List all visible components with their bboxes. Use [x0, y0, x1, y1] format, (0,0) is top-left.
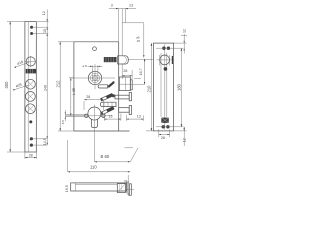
svg-text:19,5: 19,5	[65, 185, 69, 192]
svg-text:15: 15	[124, 180, 128, 184]
svg-text:28: 28	[29, 154, 33, 158]
dimension 300 vertical	[4, 22, 25, 152]
cylinder hole (euro profile)	[65, 105, 112, 134]
latch bolt shaft (hatched)	[104, 57, 117, 62]
lever piece 1 box	[119, 77, 130, 91]
bottom screw pair	[156, 125, 183, 128]
dimension 8,5 cylinder slot	[61, 110, 66, 124]
leader from bottom screw 1	[31, 138, 47, 140]
lever piece 3 edge block	[129, 106, 131, 115]
dimension 8 square	[83, 64, 103, 74]
small hole top of case	[93, 47, 97, 51]
dimension 180	[177, 48, 183, 127]
svg-text:12: 12	[182, 29, 186, 33]
middle view: lock case outline	[74, 42, 130, 131]
dimension 110	[68, 140, 131, 173]
dimension 15 strip end	[124, 175, 129, 196]
svg-text:240: 240	[43, 85, 47, 91]
right chain dimension line	[37, 10, 49, 146]
dimension L 85	[69, 78, 76, 116]
dimension 28 bottom of right view	[159, 129, 170, 140]
svg-text:13: 13	[137, 114, 141, 118]
svg-text:300: 300	[4, 81, 9, 89]
lever piece 3 angled	[101, 107, 114, 115]
dimension 28 bottom of faceplate	[25, 152, 37, 159]
bottom strip view outline	[71, 183, 127, 191]
dimension 16,7	[139, 59, 145, 85]
lever piece 1 centerline	[130, 83, 144, 85]
svg-text:210: 210	[147, 85, 152, 93]
svg-text:14,5: 14,5	[43, 138, 47, 145]
svg-text:L 85: L 85	[72, 88, 76, 95]
small hatched hole below	[164, 67, 168, 71]
svg-text:28: 28	[161, 136, 165, 140]
svg-text:13: 13	[129, 3, 133, 7]
svg-text:28: 28	[123, 69, 127, 73]
lever piece 3 link bar	[119, 108, 130, 113]
latch opening (hatched)	[26, 69, 37, 74]
bottom screw hole 2	[30, 144, 33, 147]
svg-text:15: 15	[43, 29, 47, 33]
svg-text:8,5: 8,5	[61, 120, 65, 125]
dimension 12 bottom right	[174, 127, 187, 146]
leader for ø16	[15, 60, 30, 68]
dimensions 13 13 lower	[104, 114, 143, 121]
deadbolt hole 2	[26, 92, 36, 102]
top screw hole 2	[30, 32, 33, 35]
strip end box with diagonal	[117, 184, 125, 193]
right view vertical centerline	[164, 45, 166, 130]
svg-text:16,7: 16,7	[139, 68, 143, 75]
lever piece 2 link bar	[115, 95, 129, 99]
svg-text:13: 13	[109, 114, 113, 118]
strike bar end	[125, 182, 134, 196]
svg-text:180: 180	[177, 83, 182, 91]
bottom hatched block	[161, 118, 169, 123]
svg-text:12: 12	[42, 11, 46, 15]
deadbolt hole 1	[26, 79, 36, 89]
dimension 210	[146, 43, 153, 131]
svg-text:28: 28	[86, 95, 90, 99]
dimension 212 left of case	[55, 42, 74, 131]
guard bar	[100, 102, 116, 106]
top screw pair	[156, 47, 183, 50]
leader from screw hole 2	[32, 33, 49, 35]
svg-text:B 60: B 60	[101, 154, 110, 159]
follower centerline stub right	[134, 77, 141, 79]
deadbolt hole 3	[26, 104, 36, 114]
svg-text:110: 110	[90, 164, 97, 169]
top dimension 3 and 13	[109, 3, 136, 55]
cylinder circle in right view	[157, 55, 174, 65]
dimension B 60	[94, 133, 138, 163]
lever piece 1 edge bar	[130, 80, 132, 90]
latch bolt head	[118, 56, 129, 64]
leader ø5 to latch tip	[122, 23, 144, 58]
top screw hole 1	[30, 26, 33, 29]
latch centerline	[128, 58, 153, 60]
right view slot lines	[160, 53, 170, 117]
svg-text:212: 212	[55, 80, 60, 88]
left view: faceplate front outline	[25, 22, 36, 152]
lever piece 2 (hatched angled)	[101, 94, 115, 102]
lever piece 1 bar	[98, 81, 115, 88]
leader from screw hole 1	[32, 26, 49, 28]
leader for ø25	[13, 83, 28, 91]
leader from bottom screw 2	[31, 144, 47, 146]
lever piece 2 edge block	[129, 93, 131, 101]
bottom screw hole 1	[30, 137, 33, 140]
dimension 28 latch head	[122, 64, 132, 79]
svg-text:3: 3	[111, 3, 113, 7]
dimension 12 top right	[174, 29, 188, 54]
follower assembly	[71, 64, 116, 89]
small center hole	[29, 120, 32, 123]
svg-text:12: 12	[182, 138, 186, 142]
svg-text:15: 15	[137, 39, 141, 43]
follower hole circle	[25, 56, 36, 67]
right view: outline	[153, 43, 173, 131]
svg-text:ø 8: ø 8	[83, 64, 88, 68]
dimension 28 above cylinder	[84, 95, 104, 110]
